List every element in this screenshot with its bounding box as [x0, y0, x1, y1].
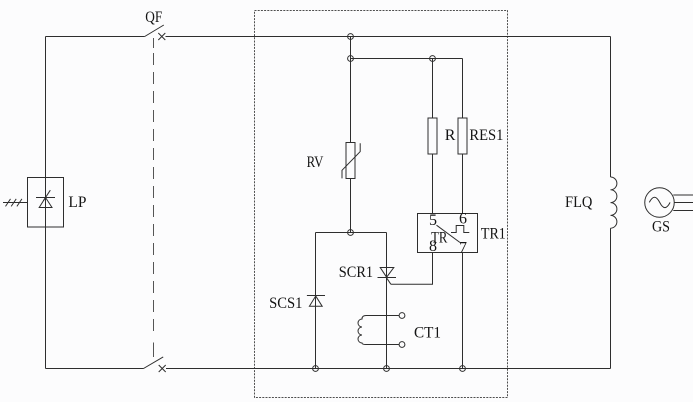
svg-text:RV: RV	[307, 154, 324, 171]
svg-text:QF: QF	[145, 9, 162, 26]
svg-text:SCR1: SCR1	[339, 264, 373, 281]
svg-text:GS: GS	[652, 218, 670, 235]
svg-text:5: 5	[429, 212, 437, 229]
svg-text:RES1: RES1	[469, 127, 503, 144]
svg-text:SCS1: SCS1	[269, 295, 302, 312]
svg-text:7: 7	[459, 239, 467, 256]
svg-text:FLQ: FLQ	[565, 194, 593, 211]
svg-text:6: 6	[459, 211, 467, 228]
svg-text:CT1: CT1	[414, 325, 441, 342]
svg-text:R: R	[445, 127, 456, 144]
svg-text:LP: LP	[68, 194, 86, 211]
svg-text:8: 8	[429, 238, 437, 255]
svg-text:TR1: TR1	[481, 226, 506, 243]
